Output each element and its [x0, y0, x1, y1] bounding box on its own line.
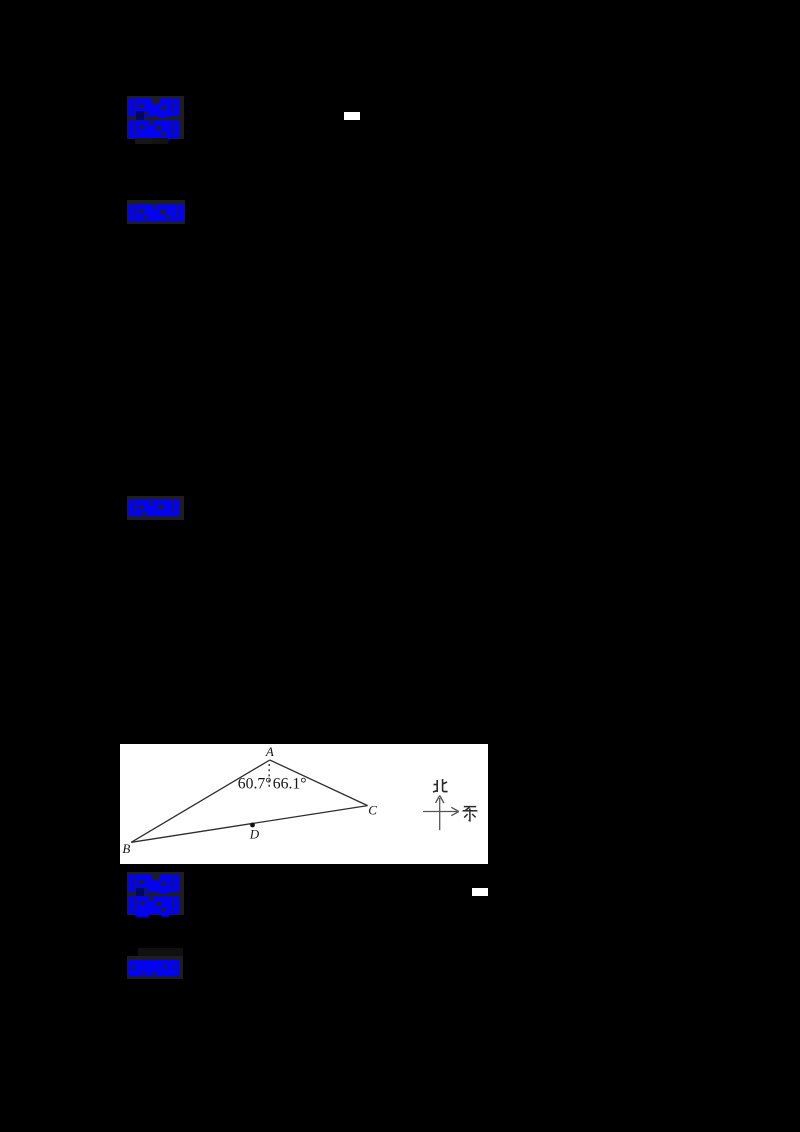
navy overlap square	[136, 111, 144, 120]
answer blank white rect (question 2)	[472, 888, 488, 896]
navy overlap square 2	[136, 888, 144, 896]
label block 4: 【点睛】 highlight	[127, 496, 184, 520]
label block 4 glyphs	[128, 497, 180, 518]
svg-text:A: A	[265, 744, 274, 759]
label block 7: 【详解】 highlight	[127, 956, 183, 979]
label block 6: 【解析】 highlight	[127, 893, 184, 915]
label block 6 glyphs	[128, 895, 180, 919]
compass horizontal line	[423, 811, 457, 813]
faint residue below block 2	[135, 138, 152, 144]
answer blank white rect (question 1)	[344, 112, 360, 120]
faint residue above block 7	[138, 948, 183, 956]
compass vertical line	[439, 798, 441, 830]
glyph 东 (east)	[463, 807, 478, 821]
svg-text:D: D	[249, 827, 260, 842]
triangle side AB	[131, 760, 270, 842]
label block 7 glyphs (dense)	[128, 959, 180, 977]
triangle side AC	[270, 760, 368, 806]
label block 5 glyphs	[128, 873, 180, 895]
svg-text:60.7°: 60.7°	[238, 775, 272, 792]
compass north arrowhead	[436, 796, 444, 804]
label block 3: 【详解】 highlight	[127, 200, 185, 224]
svg-text:C: C	[368, 803, 377, 818]
label block 2 glyphs	[128, 119, 180, 143]
svg-text:B: B	[122, 841, 130, 856]
diagram: white figure box	[120, 744, 488, 864]
compass east arrowhead	[451, 807, 459, 815]
label block 3 glyphs	[128, 203, 185, 223]
dashed altitude from A	[268, 764, 270, 790]
label block 1 glyphs	[128, 97, 180, 119]
svg-text:66.1°: 66.1°	[273, 775, 307, 792]
label block 5: 【答案】 (question 2) highlight	[127, 872, 184, 893]
glyph 北 (north)	[433, 779, 448, 792]
label block 1: 【答案】 (blue, question 1 answer) highlight	[127, 96, 184, 117]
label block 2: 【解析】 highlight	[127, 117, 184, 139]
point D	[250, 823, 255, 828]
triangle side BC	[131, 806, 367, 843]
